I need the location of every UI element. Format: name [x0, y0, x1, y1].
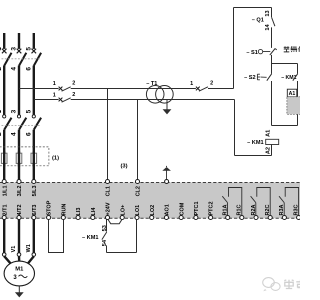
- circuit breaker Q1 pole 5-6: [25, 47, 41, 71]
- svg-text:LO+: LO+: [120, 205, 126, 216]
- terminal 2/T1: [2, 215, 6, 219]
- svg-text:W1: W1: [26, 244, 32, 252]
- coil return wire: [235, 155, 272, 157]
- svg-text:2: 2: [72, 81, 75, 87]
- Q1 auxiliary contact 13-14: [252, 8, 275, 48]
- svg-text:5/L3: 5/L3: [32, 185, 38, 196]
- svg-text:3: 3: [11, 47, 18, 51]
- svg-text:A1: A1: [265, 130, 271, 137]
- fuse-switch after T1 1-2: [190, 81, 213, 92]
- svg-text:STOP: STOP: [47, 200, 53, 215]
- svg-text:2: 2: [0, 132, 3, 136]
- svg-text:4: 4: [11, 132, 18, 136]
- drive earth terminal arrow: [165, 180, 169, 184]
- svg-text:4: 4: [11, 67, 18, 71]
- svg-text:3: 3: [11, 109, 18, 113]
- svg-text:6/T3: 6/T3: [32, 204, 38, 215]
- svg-text:– KM1: – KM1: [247, 140, 263, 146]
- svg-text:1: 1: [0, 47, 3, 51]
- svg-text:– Q1: – Q1: [252, 17, 264, 23]
- junction wire below S2/KM1: [272, 125, 298, 127]
- svg-text:2: 2: [210, 81, 213, 87]
- dashed option box (1): [0, 147, 49, 166]
- wire motor phase 3: [33, 219, 35, 252]
- wire drop to CL1: [107, 89, 109, 180]
- terminal LO+: [120, 215, 124, 219]
- terminal 4/T2: [17, 215, 21, 219]
- svg-text:(3): (3): [120, 164, 127, 170]
- svg-text:1: 1: [53, 81, 56, 87]
- svg-text:+24V: +24V: [106, 202, 112, 215]
- svg-text:2: 2: [0, 67, 3, 71]
- watermark text: [284, 280, 293, 289]
- svg-text:U1: U1: [0, 245, 2, 252]
- circuit breaker Q1 pole 1-2: [0, 47, 12, 71]
- svg-text:54: 54: [102, 239, 108, 246]
- callout box A1: [287, 89, 297, 97]
- emergency stop button S1: [246, 49, 276, 64]
- svg-text:RUN: RUN: [61, 204, 67, 216]
- wire W1 to motor: [28, 256, 34, 264]
- terminal COM: [179, 215, 183, 219]
- terminal 6/T3: [32, 215, 36, 219]
- wire motor phase 1: [3, 219, 5, 252]
- wire L3 Q1 to KM1: [33, 66, 35, 115]
- svg-text:PTC2: PTC2: [209, 201, 215, 215]
- terminal PTC1: [194, 215, 198, 219]
- terminal LI4: [91, 215, 95, 219]
- svg-text:COM: COM: [179, 202, 185, 215]
- wire lower to control rail: [71, 99, 235, 101]
- fuse F3: [31, 153, 37, 163]
- wire phase L1 incoming: [3, 33, 5, 49]
- start button S2: [244, 64, 272, 126]
- motor terminal W1: [32, 253, 36, 257]
- wire motor phase 2: [18, 219, 20, 252]
- svg-text:LO1: LO1: [135, 205, 141, 216]
- wire V1 to motor: [18, 256, 21, 261]
- svg-text:LI3: LI3: [76, 208, 82, 216]
- svg-text:14: 14: [265, 23, 271, 30]
- jumper +24V to LO+: [108, 220, 122, 224]
- terminal R3C: [297, 215, 301, 219]
- terminal R2C: [268, 215, 272, 219]
- terminal CL2: [135, 179, 139, 183]
- wire U1 to motor: [4, 256, 11, 264]
- terminal RUN: [61, 215, 65, 219]
- control rail A up: [233, 8, 235, 89]
- terminal CL1: [105, 179, 109, 183]
- motor terminal V1: [17, 253, 21, 257]
- circuit breaker Q1 pole 3-4: [11, 47, 27, 71]
- wire control feed lower (from L3): [34, 99, 59, 101]
- svg-text:4/T2: 4/T2: [17, 204, 23, 215]
- wire phase L2 incoming: [18, 33, 20, 49]
- terminal R1C: [240, 215, 244, 219]
- motor M1: [4, 261, 34, 286]
- junction wire above S2/KM1: [272, 63, 298, 65]
- contactor KM1 pole 5-6: [25, 109, 41, 136]
- svg-text:53: 53: [102, 225, 108, 231]
- fuse-switch lower 1-2: [53, 92, 76, 102]
- wire L3 KM1 to drive: [33, 130, 35, 180]
- svg-text:– KM1: – KM1: [82, 235, 98, 241]
- wire L1 Q1 to KM1: [3, 66, 5, 115]
- wire upper to T1: [71, 88, 196, 90]
- svg-text:2: 2: [72, 92, 75, 98]
- svg-text:CL2: CL2: [136, 186, 142, 196]
- svg-text:M1: M1: [15, 267, 24, 273]
- wire L2 KM1 to drive: [18, 130, 20, 180]
- wire control feed upper (from L2): [19, 88, 59, 90]
- svg-text:CL1: CL1: [106, 186, 112, 196]
- terminal 1/L1: [2, 179, 6, 183]
- svg-text:5: 5: [25, 47, 32, 51]
- relay contact R3: [279, 188, 299, 216]
- T1 ground arrow: [166, 100, 168, 110]
- Q1 mechanical linkage: [2, 58, 41, 60]
- KM1 auxiliary contact parallel: [281, 64, 298, 126]
- wire L1 KM1 to drive: [3, 130, 5, 180]
- svg-text:PTC1: PTC1: [194, 201, 200, 215]
- KM1 mechanical linkage: [2, 125, 41, 127]
- terminal LO1: [135, 215, 139, 219]
- svg-text:13: 13: [265, 10, 271, 16]
- svg-text:LI4: LI4: [91, 207, 97, 216]
- STOP-RUN jumper loop: [49, 219, 64, 252]
- svg-text:A2: A2: [265, 147, 271, 154]
- terminal R2A: [254, 215, 258, 219]
- fuse F2: [16, 153, 22, 163]
- svg-text:3/L2: 3/L2: [17, 185, 23, 196]
- relay contact R2: [251, 188, 271, 216]
- motor ground: [18, 286, 20, 293]
- svg-text:V1: V1: [11, 246, 17, 253]
- terminal R3A: [282, 215, 286, 219]
- terminal 3/L2: [17, 179, 21, 183]
- transformer T1: [146, 81, 173, 103]
- fuse-switch upper 1-2: [53, 81, 76, 92]
- wire phase L3 incoming: [33, 33, 35, 49]
- relay contact R1: [222, 188, 242, 216]
- terminal R1A: [226, 215, 230, 219]
- label emergency stop (Chinese): [284, 46, 290, 52]
- svg-text:– S1: – S1: [246, 50, 258, 56]
- contactor KM1 pole 3-4: [11, 109, 27, 136]
- KM1 auxiliary contact 53-54: [82, 219, 108, 252]
- svg-text:A1: A1: [289, 91, 296, 97]
- frequency drive terminal band: [0, 183, 300, 219]
- svg-text:1/L1: 1/L1: [2, 185, 8, 196]
- svg-text:1: 1: [53, 93, 56, 99]
- wire 54 to LO1: [107, 252, 137, 254]
- svg-text:AO1: AO1: [165, 204, 171, 215]
- fuse F1: [1, 153, 7, 163]
- contactor coil KM1: [247, 130, 279, 156]
- terminal PTC2: [209, 215, 213, 219]
- svg-text:1: 1: [0, 109, 3, 113]
- contactor KM1 pole 1-2: [0, 109, 12, 136]
- control top wire: [234, 7, 272, 9]
- svg-text:2/T1: 2/T1: [2, 204, 8, 215]
- motor terminal U1: [2, 253, 6, 257]
- svg-text:6: 6: [25, 132, 32, 136]
- wire drop to CL2: [137, 100, 139, 180]
- svg-text:LO2: LO2: [150, 205, 156, 216]
- terminal LO2: [150, 215, 154, 219]
- terminal LI3: [76, 215, 80, 219]
- terminal 5/L3: [32, 179, 36, 183]
- wire L2 Q1 to KM1: [18, 66, 20, 115]
- terminal AO1: [164, 215, 168, 219]
- svg-text:1: 1: [190, 81, 193, 87]
- svg-text:6: 6: [25, 67, 32, 71]
- wire upper switch to rail A: [208, 88, 234, 90]
- svg-text:(1): (1): [52, 156, 59, 162]
- svg-text:5: 5: [25, 109, 32, 113]
- terminal +24V: [105, 215, 109, 219]
- terminal STOP: [47, 215, 51, 219]
- watermark wechat icon: [263, 278, 280, 292]
- svg-text:– S2: – S2: [244, 75, 256, 81]
- control rail B down: [234, 100, 236, 156]
